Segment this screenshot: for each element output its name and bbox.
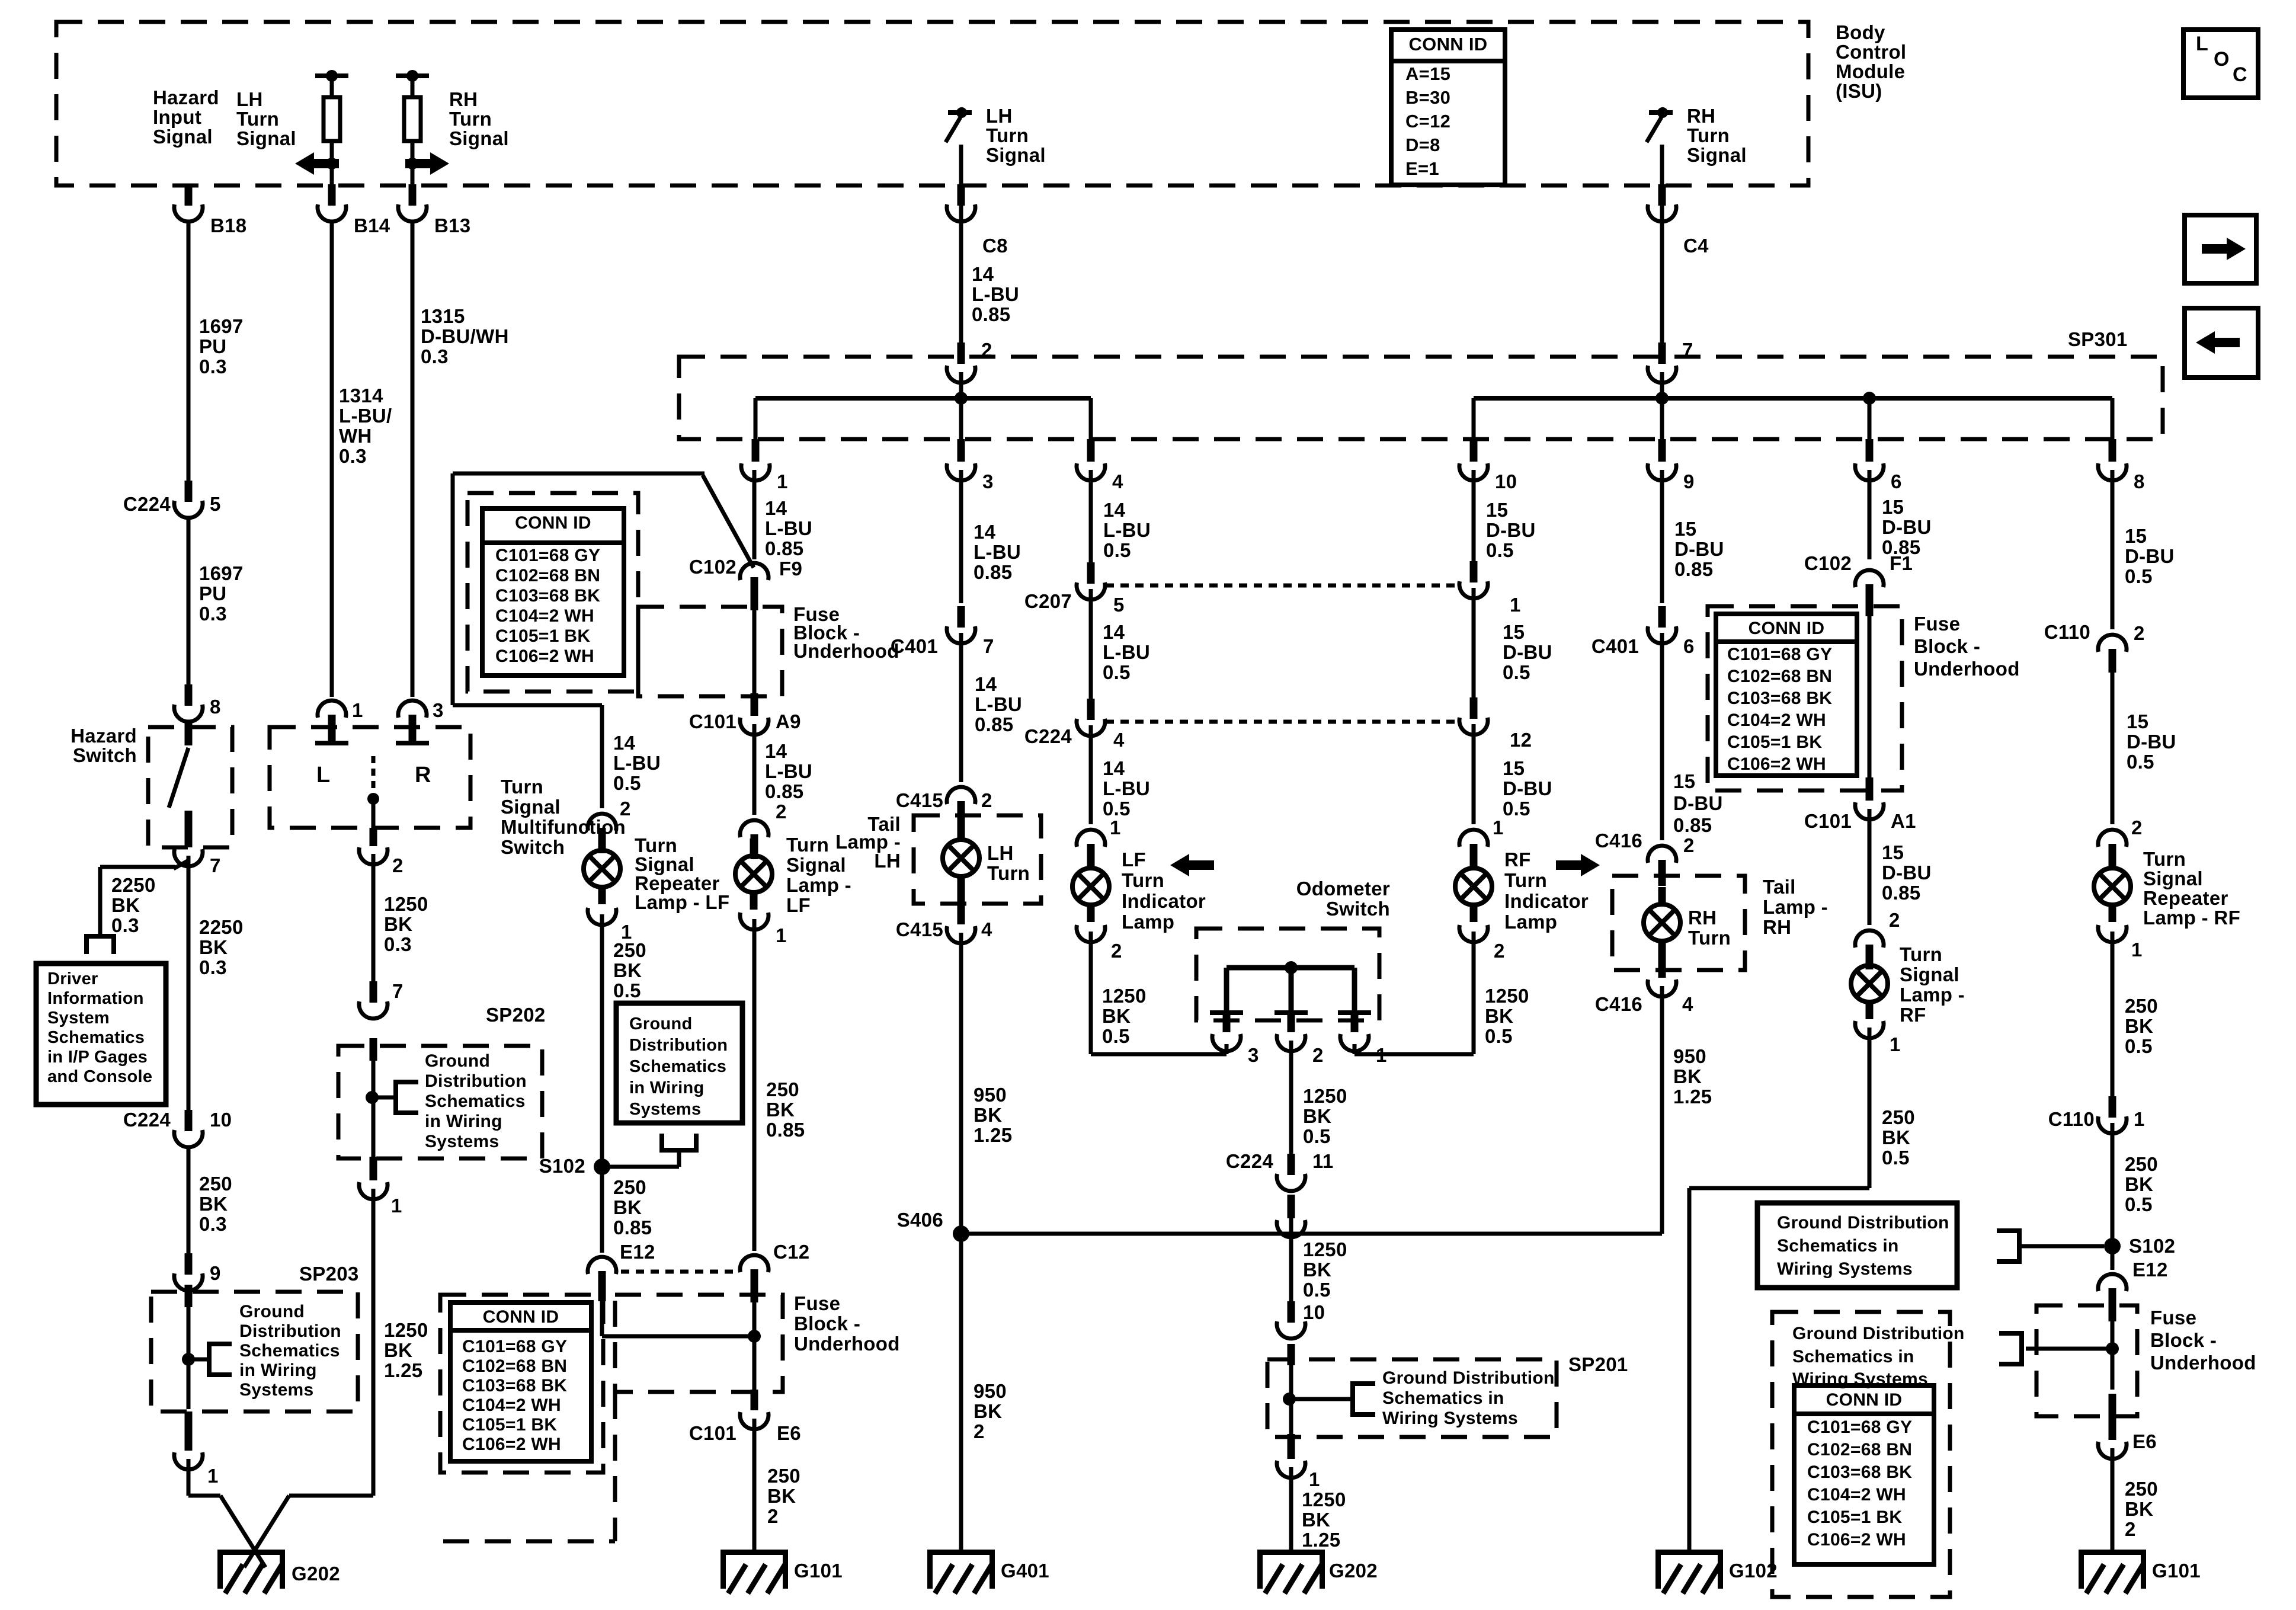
- svg-text:Turn: Turn: [449, 108, 492, 130]
- svg-text:Ground: Ground: [629, 1014, 693, 1033]
- svg-text:2250: 2250: [111, 874, 156, 896]
- svg-text:D-BU: D-BU: [1503, 777, 1552, 799]
- Tail Lamp - LH label: [835, 813, 901, 872]
- svg-text:C106=2 WH: C106=2 WH: [1807, 1530, 1906, 1550]
- svg-text:CONN ID: CONN ID: [1749, 619, 1825, 638]
- wire: [411, 223, 415, 697]
- pull-up bar B13: [396, 70, 429, 82]
- CONN ID table (bottom left): [450, 1302, 591, 1461]
- LF Turn Indicator Lamp label: [1122, 849, 1206, 933]
- svg-text:C401: C401: [1591, 635, 1639, 657]
- label SP202: [486, 1004, 546, 1026]
- svg-text:BK: BK: [199, 936, 228, 958]
- terminal R: [396, 729, 429, 745]
- svg-text:LH: LH: [874, 850, 901, 872]
- fork from S102 to schematics box: [659, 1134, 699, 1167]
- CONN ID table (BCM): [1391, 30, 1505, 185]
- svg-text:2: 2: [974, 1420, 985, 1442]
- connector pin 7 (C4 into SP301): [1648, 343, 1676, 383]
- dotted line C224 row: [1106, 720, 1459, 724]
- svg-text:Lamp - RF: Lamp - RF: [2143, 907, 2240, 929]
- wire: [1868, 1028, 1872, 1188]
- svg-text:4: 4: [1682, 993, 1693, 1015]
- svg-text:3: 3: [433, 699, 444, 721]
- node LH turn with left arrow: [295, 152, 339, 175]
- resistor R-RH (B13 pull-up): [404, 97, 421, 141]
- svg-text:Systems: Systems: [239, 1380, 314, 1400]
- svg-text:0.85: 0.85: [975, 713, 1013, 735]
- wire: [959, 633, 963, 782]
- wire: [1089, 470, 1093, 564]
- wire: [959, 187, 963, 343]
- svg-text:C224: C224: [123, 493, 171, 515]
- label C101: [689, 1422, 736, 1444]
- svg-text:Block -: Block -: [2150, 1329, 2217, 1351]
- ground G202 (center): [1257, 1550, 1325, 1593]
- svg-text:WH: WH: [339, 425, 372, 447]
- svg-text:Underhood: Underhood: [793, 640, 899, 662]
- svg-text:C224: C224: [1024, 725, 1072, 747]
- wire: [187, 1148, 191, 1256]
- svg-text:C102=68 BN: C102=68 BN: [495, 566, 600, 585]
- connector pin 1: [174, 1452, 203, 1470]
- pin label A9: [776, 710, 801, 732]
- svg-text:L: L: [2196, 33, 2208, 55]
- svg-text:BK: BK: [1485, 1005, 1513, 1027]
- svg-text:D=8: D=8: [1405, 135, 1440, 155]
- connector C224 pin 4: [1077, 699, 1105, 736]
- svg-text:B13: B13: [434, 215, 470, 236]
- pin label 2: [620, 798, 631, 820]
- CONN ID table (left): [482, 508, 624, 676]
- svg-text:5: 5: [1113, 594, 1125, 616]
- svg-text:9: 9: [1683, 470, 1695, 492]
- pin label 1: [1110, 817, 1121, 838]
- svg-text:BK: BK: [613, 959, 642, 981]
- pin label 11: [1312, 1150, 1334, 1172]
- svg-text:2: 2: [1312, 1044, 1324, 1066]
- wire: [2109, 1394, 2116, 1440]
- svg-text:Underhood: Underhood: [1914, 658, 2020, 680]
- dotted line C207 row: [1106, 584, 1459, 588]
- wire label 250 BK 0.5: [2125, 995, 2158, 1057]
- svg-text:BK: BK: [199, 1193, 228, 1215]
- svg-text:0.3: 0.3: [111, 914, 139, 936]
- connector C12: [740, 1255, 768, 1302]
- svg-text:2: 2: [1683, 834, 1695, 856]
- connector pin 1 (dotted row): [1459, 561, 1488, 598]
- svg-text:250: 250: [613, 1176, 646, 1198]
- svg-text:1: 1: [1110, 817, 1121, 838]
- pin label 2: [981, 339, 992, 361]
- Fuse Block - Underhood label: [1914, 613, 2020, 680]
- connector pin 2 (LF indicator): [1077, 925, 1105, 942]
- svg-text:2: 2: [2125, 1518, 2136, 1540]
- svg-text:950: 950: [974, 1084, 1007, 1106]
- svg-text:BK: BK: [767, 1485, 796, 1507]
- lamp LF Turn Indicator Lamp: [1072, 851, 1109, 922]
- svg-text:B=30: B=30: [1405, 87, 1450, 108]
- pin label E6: [2132, 1430, 2157, 1452]
- svg-text:1250: 1250: [1485, 985, 1529, 1007]
- terminal L: [315, 729, 348, 745]
- resistor R-LH (B14 pull-up): [324, 97, 340, 141]
- connector C102 pin F1: [1855, 570, 1884, 616]
- svg-text:Ground Distribution: Ground Distribution: [1792, 1324, 1965, 1343]
- label G202: [1329, 1560, 1378, 1582]
- wire: [2111, 673, 2115, 824]
- svg-text:Distribution: Distribution: [425, 1071, 527, 1091]
- wire: [330, 223, 334, 697]
- svg-text:C104=2 WH: C104=2 WH: [1727, 710, 1826, 730]
- svg-text:0.5: 0.5: [1103, 539, 1131, 561]
- connector pin 1 (repeater LF): [588, 908, 616, 925]
- svg-text:0.85: 0.85: [1673, 814, 1712, 836]
- svg-text:Lamp -: Lamp -: [1763, 896, 1828, 918]
- fork to ground distribution schematics: [1353, 1381, 1375, 1417]
- label E12: [2132, 1259, 2168, 1281]
- svg-text:L-BU: L-BU: [613, 752, 661, 774]
- svg-text:15: 15: [1503, 621, 1525, 643]
- Body Control Module (ISU) label: [1836, 21, 1906, 102]
- svg-text:0.85: 0.85: [765, 537, 803, 559]
- wire: [1660, 187, 1664, 343]
- label C401: [891, 635, 938, 657]
- svg-text:10: 10: [1303, 1301, 1325, 1323]
- svg-text:D-BU: D-BU: [1503, 641, 1552, 663]
- pin label 2: [1683, 834, 1695, 856]
- connector C110 pin 2: [2098, 635, 2127, 673]
- fork from schematics box to S102: [1997, 1228, 2104, 1264]
- connector pin 1 (repeater RF): [2098, 925, 2127, 942]
- svg-text:Turn: Turn: [986, 124, 1029, 146]
- svg-text:L-BU: L-BU: [1103, 641, 1150, 663]
- wire label 250 BK 2: [2125, 1478, 2158, 1540]
- svg-text:1250: 1250: [1302, 1489, 1346, 1510]
- connector pin 10: [1277, 1301, 1305, 1339]
- svg-text:Signal: Signal: [1900, 964, 1959, 985]
- Ground Distribution Schematics text (SP201): [1382, 1368, 1555, 1428]
- wire: [1289, 1041, 1293, 1160]
- svg-text:2: 2: [2131, 817, 2143, 838]
- wire label 250 BK 2: [767, 1465, 800, 1527]
- pin label 2: [2134, 622, 2145, 644]
- fuse block underhood dashed box (bottom): [615, 1295, 783, 1392]
- svg-text:Signal: Signal: [986, 144, 1046, 166]
- svg-text:14: 14: [1103, 499, 1126, 521]
- svg-text:250: 250: [1882, 1106, 1915, 1128]
- pin label 2: [981, 789, 992, 811]
- connector pin 2 (repeater RF): [2098, 830, 2127, 870]
- svg-text:Schematics: Schematics: [425, 1092, 526, 1111]
- Turn Signal Repeater Lamp - RF label: [2143, 848, 2240, 929]
- svg-text:BK: BK: [111, 894, 140, 916]
- svg-text:Lamp: Lamp: [1122, 911, 1174, 933]
- svg-text:2: 2: [2134, 622, 2145, 644]
- wire label 14 L-BU 0.5: [1103, 621, 1150, 683]
- svg-text:PU: PU: [199, 582, 226, 604]
- svg-text:Information: Information: [47, 989, 144, 1008]
- svg-text:BK: BK: [1882, 1126, 1910, 1148]
- svg-text:Underhood: Underhood: [794, 1333, 900, 1355]
- pin label 5: [1113, 594, 1125, 616]
- fuse block underhood dashed box (bottom right): [2036, 1305, 2137, 1416]
- connector bus branch pin 8: [2098, 439, 2127, 481]
- wire label 14 L-BU 0.5: [1103, 499, 1151, 561]
- svg-text:3: 3: [982, 470, 994, 492]
- connector (S406 crossing): [1277, 1195, 1305, 1237]
- svg-text:Input: Input: [153, 106, 201, 128]
- svg-text:Wiring Systems: Wiring Systems: [1382, 1409, 1518, 1428]
- label S102: [2129, 1235, 2175, 1257]
- wire label 1250 BK 0.5: [1303, 1085, 1347, 1147]
- wire: [330, 164, 334, 187]
- label C224: [1226, 1150, 1273, 1172]
- connector bus branch pin 9: [1648, 439, 1676, 481]
- pin label B14: [354, 215, 390, 236]
- pin label 4: [1682, 993, 1693, 1015]
- wire label 14 L-BU 0.5 (repeater feed): [613, 732, 661, 794]
- Ground Distribution Schematics text: [1777, 1213, 1949, 1279]
- svg-text:Fuse: Fuse: [1914, 613, 1960, 635]
- pin label 2: [2131, 817, 2143, 838]
- wire: [751, 1390, 758, 1410]
- node S102 splice: [594, 1158, 610, 1175]
- wire label 250 BK 0.3: [199, 1173, 232, 1235]
- wire: [185, 723, 193, 745]
- svg-text:0.5: 0.5: [1303, 1125, 1331, 1147]
- svg-text:D-BU: D-BU: [1674, 538, 1724, 560]
- connector pin 9: [174, 1253, 203, 1291]
- pin label 10: [1495, 470, 1517, 492]
- svg-text:14: 14: [765, 740, 787, 762]
- svg-text:C110: C110: [2048, 1108, 2095, 1130]
- connector pin 2 (repeater LF): [588, 814, 616, 853]
- svg-text:15: 15: [1673, 770, 1695, 792]
- node bus splice: [1863, 392, 1876, 405]
- svg-text:C110: C110: [2044, 621, 2090, 643]
- wire: [372, 854, 376, 981]
- wire: [1660, 145, 1664, 187]
- svg-text:0.5: 0.5: [1303, 1279, 1331, 1301]
- svg-text:BK: BK: [1303, 1105, 1331, 1127]
- svg-text:1250: 1250: [384, 1319, 428, 1341]
- svg-text:G401: G401: [1001, 1560, 1049, 1582]
- wire: [959, 1234, 963, 1550]
- connector C416 pin 2: [1648, 846, 1676, 886]
- svg-text:C101=68 GY: C101=68 GY: [462, 1337, 567, 1356]
- Fuse Block - Underhood label: [794, 1292, 900, 1355]
- svg-text:BK: BK: [1673, 1065, 1702, 1087]
- left CONN ID dashed box: [467, 493, 638, 692]
- wire label 950 BK 2: [974, 1380, 1007, 1442]
- connector odometer pin 1: [1340, 1015, 1369, 1051]
- RH Turn label: [1688, 907, 1731, 949]
- svg-text:C103=68 BK: C103=68 BK: [1727, 689, 1832, 708]
- fork to ground distribution (bottom right): [1999, 1331, 2022, 1366]
- svg-text:1.25: 1.25: [974, 1124, 1012, 1146]
- connector E12: [588, 1257, 616, 1301]
- wire label 1314 L-BU/ WH 0.3: [339, 385, 392, 467]
- Ground Distribution Schematics box (solid, right): [1757, 1203, 1957, 1288]
- svg-text:SP203: SP203: [299, 1263, 359, 1285]
- svg-text:Turn: Turn: [987, 862, 1030, 884]
- pin label 7: [983, 635, 994, 657]
- RH Turn Signal label (output): [1687, 105, 1747, 166]
- pin label 4: [981, 918, 992, 940]
- svg-text:14: 14: [613, 732, 636, 754]
- svg-text:1: 1: [2134, 1108, 2145, 1130]
- svg-text:9: 9: [210, 1262, 221, 1284]
- connector B13: [398, 184, 427, 222]
- hazard switch lever: [169, 748, 188, 808]
- svg-text:E=1: E=1: [1405, 158, 1439, 179]
- svg-text:L-BU: L-BU: [1103, 777, 1150, 799]
- label C102: [689, 556, 736, 578]
- wire label 15 D-BU 0.5: [1486, 499, 1536, 561]
- svg-text:LH: LH: [987, 842, 1014, 864]
- svg-text:Signal: Signal: [236, 127, 296, 149]
- pin label 12: [1510, 729, 1532, 751]
- left turn legend box: [2185, 308, 2258, 377]
- connector pin 7 (hazard switch): [174, 849, 203, 866]
- wire: [959, 145, 963, 187]
- svg-text:C224: C224: [1226, 1150, 1273, 1172]
- lamp RF Turn Indicator Lamp: [1455, 851, 1492, 922]
- svg-text:Underhood: Underhood: [2150, 1352, 2256, 1374]
- svg-text:1: 1: [207, 1465, 219, 1487]
- svg-text:2: 2: [1494, 940, 1505, 962]
- svg-text:0.85: 0.85: [1882, 882, 1920, 904]
- svg-text:Block -: Block -: [1914, 635, 1980, 657]
- svg-text:Signal: Signal: [153, 126, 213, 148]
- fork to ground distribution schematics: [396, 1080, 418, 1115]
- pull-up bar B14: [315, 70, 348, 82]
- wire: [2111, 1123, 2115, 1270]
- svg-text:0.85: 0.85: [1674, 558, 1713, 580]
- svg-text:1: 1: [1510, 594, 1521, 616]
- svg-text:BK: BK: [974, 1400, 1002, 1422]
- svg-text:and Console: and Console: [47, 1067, 152, 1086]
- connector C8: [947, 184, 975, 222]
- label SP203: [299, 1263, 359, 1285]
- pin label 2: [1111, 940, 1122, 962]
- wire E12 to C12 link: [602, 1334, 754, 1339]
- svg-text:Schematics in: Schematics in: [1382, 1388, 1504, 1408]
- Ground Distribution Schematics text: [629, 1014, 728, 1119]
- connector E6 (right): [2098, 1442, 2127, 1459]
- svg-text:RF: RF: [1900, 1004, 1926, 1026]
- svg-text:in Wiring: in Wiring: [239, 1361, 317, 1380]
- svg-text:C415: C415: [896, 918, 943, 940]
- svg-text:in Wiring: in Wiring: [425, 1112, 502, 1131]
- svg-text:Turn: Turn: [1504, 869, 1547, 891]
- connector B14: [318, 184, 346, 222]
- svg-text:14: 14: [1103, 621, 1125, 643]
- connector pin 1 (LF indicator): [1077, 830, 1105, 870]
- label C401: [1591, 635, 1639, 657]
- odometer terminals: [1210, 1010, 1371, 1015]
- Ground Distribution Schematics text (bottom right): [1792, 1324, 1965, 1389]
- svg-text:0.85: 0.85: [613, 1217, 652, 1238]
- wire: [185, 1411, 193, 1451]
- connector C101 pin E6: [740, 1412, 768, 1429]
- wire: [1288, 1344, 1295, 1434]
- svg-text:CONN ID: CONN ID: [483, 1307, 559, 1327]
- connector C401 pin 7: [947, 606, 975, 644]
- svg-text:0.5: 0.5: [1102, 1025, 1130, 1047]
- pin label 1: [1493, 817, 1504, 838]
- svg-text:L-BU: L-BU: [975, 693, 1022, 715]
- connector C401 pin 6: [1648, 606, 1676, 644]
- wire: [1289, 1467, 1293, 1550]
- arrow right (RF indicator): [1556, 854, 1600, 876]
- svg-text:250: 250: [2125, 1478, 2158, 1500]
- svg-text:SP202: SP202: [486, 1004, 546, 1026]
- wire to fork: [2026, 1347, 2112, 1351]
- svg-text:C101=68 GY: C101=68 GY: [495, 546, 600, 565]
- pin label 1: [776, 924, 787, 946]
- label C207: [1024, 590, 1072, 612]
- svg-text:LH: LH: [986, 105, 1013, 127]
- svg-text:Turn: Turn: [786, 834, 829, 856]
- svg-text:C=12: C=12: [1405, 111, 1450, 132]
- bottom right CONN ID dashed box: [1772, 1312, 1950, 1597]
- svg-text:LF: LF: [786, 894, 811, 916]
- svg-text:C105=1 BK: C105=1 BK: [1727, 732, 1822, 752]
- svg-text:in I/P Gages: in I/P Gages: [47, 1048, 148, 1067]
- tail lamp RH dashed box: [1612, 876, 1745, 970]
- pin label 2: [776, 801, 787, 822]
- pin label 1: [1309, 1468, 1320, 1490]
- svg-text:7: 7: [392, 980, 404, 1002]
- svg-text:C224: C224: [123, 1109, 171, 1131]
- svg-text:0.3: 0.3: [199, 956, 227, 978]
- svg-text:C106=2 WH: C106=2 WH: [495, 646, 594, 666]
- connector C415 pin 4: [947, 889, 975, 943]
- svg-text:B18: B18: [210, 215, 246, 236]
- wire S102 to fork: [602, 1165, 679, 1169]
- svg-text:2: 2: [776, 801, 787, 822]
- svg-text:C101=68 GY: C101=68 GY: [1727, 645, 1832, 664]
- CONN ID table (right): [1716, 614, 1857, 776]
- svg-text:S102: S102: [2129, 1235, 2175, 1257]
- pin label 2: [392, 854, 404, 876]
- svg-text:B14: B14: [354, 215, 390, 236]
- pin label 1: [1510, 594, 1521, 616]
- svg-text:Control: Control: [1836, 41, 1906, 63]
- svg-text:D-BU: D-BU: [1882, 516, 1932, 538]
- svg-text:8: 8: [2134, 470, 2145, 492]
- wire: [752, 919, 757, 1251]
- svg-text:0.3: 0.3: [199, 356, 227, 377]
- tail lamp LH dashed box: [914, 815, 1041, 904]
- svg-text:BK: BK: [2125, 1015, 2153, 1037]
- node C4 bus splice: [1655, 392, 1669, 405]
- label G101: [2152, 1560, 2201, 1582]
- svg-text:1697: 1697: [199, 562, 244, 584]
- connector pin 8 (hazard switch): [174, 684, 203, 722]
- wire label 2250 BK 0.3: [199, 916, 244, 978]
- label C110: [2044, 621, 2090, 643]
- Driver Information System box: [36, 964, 166, 1105]
- wire label 14 L-BU 0.85: [974, 521, 1021, 583]
- svg-text:Indicator: Indicator: [1122, 890, 1206, 912]
- wire label 2250 BK 0.3 (branch): [111, 874, 156, 936]
- pin label C4: [1683, 235, 1709, 257]
- wire label 15 D-BU 0.85: [1674, 518, 1724, 580]
- pin label 5: [210, 493, 221, 515]
